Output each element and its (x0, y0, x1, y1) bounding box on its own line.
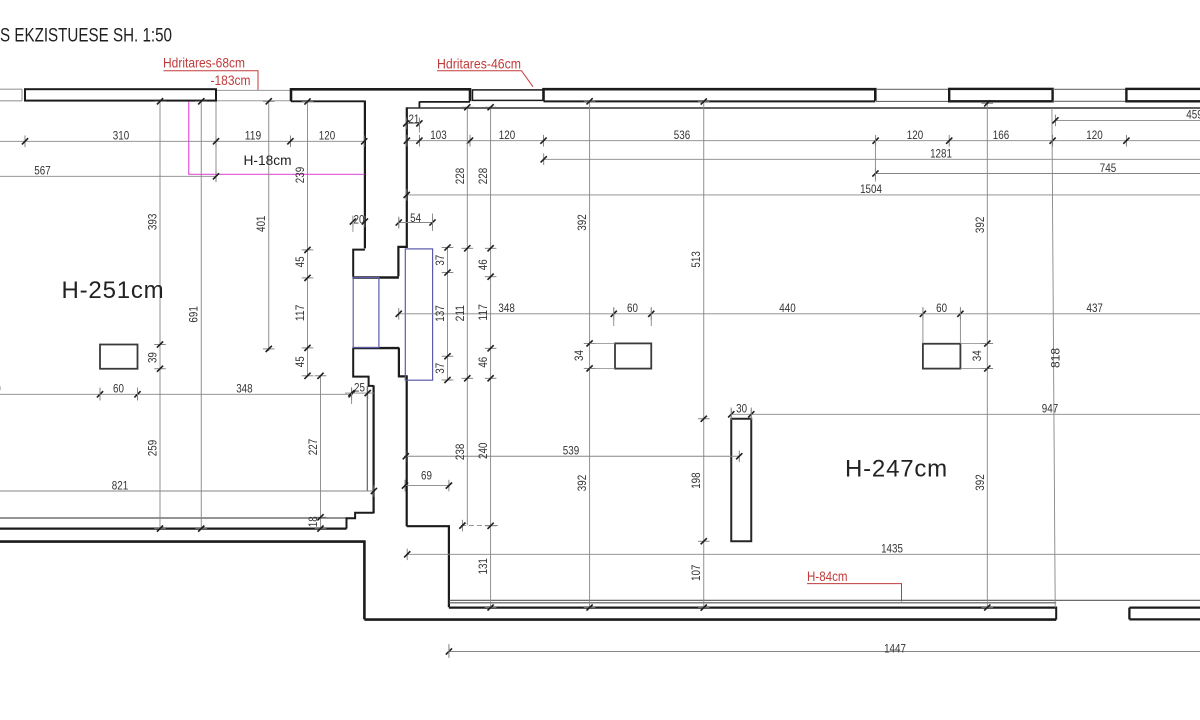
svg-text:393: 393 (146, 213, 160, 230)
red label H-84cm with leader (807, 568, 902, 602)
svg-text:536: 536 (674, 128, 691, 142)
svg-text:539: 539 (563, 444, 580, 458)
svg-text:392: 392 (575, 214, 589, 231)
svg-text:45: 45 (293, 356, 307, 367)
svg-text:25: 25 (354, 381, 365, 395)
svg-text:691: 691 (187, 306, 201, 323)
svg-text:Hdritares-46cm: Hdritares-46cm (437, 56, 521, 72)
vdim 228/46/117/46/240/131 x490.6 (476, 104, 496, 610)
svg-text:117: 117 (476, 304, 490, 321)
wall: thin door frame line x367.3 (366, 386, 368, 490)
dim 25 (door step width) (345, 381, 374, 405)
wall: pier box (1126-edge) (1126, 89, 1200, 101)
dim 348/60/440/60/437 y313.8 (396, 301, 1200, 320)
svg-text:120: 120 (319, 129, 336, 143)
extension below left column (99, 388, 101, 401)
svg-text:46: 46 (476, 356, 490, 367)
extension x875 between dim rows (874, 139, 876, 182)
svg-text:392: 392 (575, 475, 589, 492)
svg-text:60: 60 (627, 301, 638, 315)
svg-text:60: 60 (936, 301, 947, 315)
wall: inner face line y101 (291-365) (291, 100, 364, 102)
dim 1504 y194.9 (404, 182, 1200, 201)
svg-text:1281: 1281 (930, 147, 952, 161)
svg-text:18: 18 (306, 516, 320, 527)
wall: bottom step zigzag at x346-374 (347, 513, 374, 529)
wall: niche corner below corridor (407-449) (407, 526, 449, 607)
window opening top line (876-949) (876, 88, 949, 90)
svg-text:259: 259 (146, 440, 160, 457)
svg-text:348: 348 (498, 301, 515, 315)
svg-text:392: 392 (973, 474, 987, 491)
window opening bottom line (216-291) (217, 100, 291, 102)
window opening thin lines at canvas left edge (0, 88, 22, 90)
dim 1281 y159.3 (541, 147, 1200, 166)
dim 1447 y651.5 (446, 642, 1200, 658)
vdim 37/137/37 x447.5 (433, 244, 453, 383)
svg-text:401: 401 (254, 215, 268, 232)
dim 54 (door frame width) (396, 211, 436, 229)
svg-text:103: 103 (430, 128, 447, 142)
dim 21 (wall step at room top-left) (403, 112, 422, 129)
stub to column1 top (590, 342, 615, 344)
svg-text:238: 238 (453, 443, 467, 460)
svg-text:20: 20 (354, 213, 365, 227)
wall: pier bottom line (543-875) (544, 100, 876, 102)
tall pier/radiator rect (30x198) (731, 419, 751, 542)
vdim 392/34/392 x589.6 (572, 98, 595, 610)
svg-text:34: 34 (970, 350, 984, 361)
svg-text:240: 240 (476, 442, 490, 459)
extension above column2 left (922, 307, 924, 344)
wall: bottom sill thin line y602.8 (449, 602, 1056, 604)
dashed terminator of x467 dim chain (461, 525, 501, 527)
svg-text:239: 239 (293, 167, 307, 184)
svg-text:117: 117 (293, 304, 307, 321)
svg-text:54: 54 (410, 211, 421, 225)
svg-text:120: 120 (907, 128, 924, 142)
wall: door jamb step left (352.4-365 at y249) (353, 250, 365, 277)
vdim 227/18 x320.5 (306, 373, 326, 532)
dim 30 / 947 y414 (728, 402, 1200, 421)
extension above tall rect left (730, 408, 732, 419)
extension x216 wall edge down to dim 567 (215, 102, 217, 182)
svg-text:227: 227 (306, 439, 320, 456)
door leaf rect in corridor (blue) (353, 278, 379, 348)
column rect in left room (100, 345, 138, 369)
svg-text:818: 818 (1049, 348, 1063, 368)
column rect 1 in big room (615, 343, 651, 368)
wall: bottom sill thin line y600.3 (449, 599, 1200, 601)
svg-text:392: 392 (973, 216, 987, 233)
extension above column2 right (959, 307, 961, 344)
extension for dim 54 left (398, 218, 400, 229)
svg-text:211: 211 (453, 305, 467, 322)
svg-text:H-84cm: H-84cm (807, 568, 848, 584)
window opening bottom line (1053-1126) (1053, 100, 1127, 102)
vdim 392/34/392 x987.3 (970, 100, 993, 610)
dim line 310/119/120 y141 (0, 129, 367, 148)
wall: door sill bottom thick line y348 (352, 347, 399, 349)
wall: outer bottom wall y619.6 (364, 618, 1056, 621)
svg-text:513: 513 (689, 251, 703, 268)
svg-text:567: 567 (34, 164, 51, 178)
svg-text:1447: 1447 (884, 642, 906, 656)
extension below left column right (137, 388, 139, 401)
wall: big room top inner wall line y108 (407, 107, 1200, 109)
wall: right jamb upper step (397-407 at y248) (398, 107, 406, 276)
svg-text:228: 228 (476, 168, 490, 185)
extension above column1 right (650, 307, 652, 326)
svg-text:34: 34 (572, 350, 586, 361)
svg-text:459: 459 (1186, 108, 1200, 122)
svg-text:37: 37 (433, 363, 447, 374)
svg-text:1435: 1435 (881, 542, 903, 556)
svg-text:947: 947 (1042, 402, 1059, 416)
extension for dim 54 right (432, 214, 434, 232)
wall: left room lower right wall x373.6 (373, 385, 375, 513)
svg-text:745: 745 (1100, 161, 1117, 175)
svg-text:120: 120 (499, 128, 516, 142)
window: Hdritares-46cm window rect (472-543) (473, 90, 544, 101)
vdim 228/211/238 x467 (453, 104, 473, 525)
svg-text:437: 437 (1087, 301, 1104, 315)
dim 69 y485.6 (402, 468, 452, 491)
svg-text:S EKZISTUESE SH. 1:50: S EKZISTUESE SH. 1:50 (0, 26, 172, 47)
wall: right jamb lower step (399, 348, 407, 526)
wall: top band pier x543-876 (544, 89, 876, 101)
svg-text:310: 310 (113, 129, 130, 143)
stub to column1 bottom (590, 368, 615, 370)
svg-text:69: 69 (421, 468, 432, 482)
wall: left jamb lower (353 down to step at 376.5) (353, 348, 373, 386)
svg-text:120: 120 (1086, 128, 1103, 142)
svg-text:60: 60 (113, 382, 124, 396)
svg-text:45: 45 (293, 256, 307, 267)
vdim 691 x201 (187, 98, 207, 532)
svg-text:228: 228 (453, 168, 467, 185)
vdim 818 x1054 (slightly tilted) (1049, 108, 1063, 608)
wall: left room bottom thick line y528.6 (0, 527, 347, 529)
svg-text:H-247cm: H-247cm (845, 456, 948, 483)
dim 1435 y554 (404, 542, 1200, 561)
dim 567 y176 (0, 164, 219, 183)
extension above column1 left (613, 307, 615, 326)
extension at x449 for dim 1447 (448, 644, 450, 658)
red label Hdritares-46cm with leader (437, 56, 533, 87)
wall: bottom band right edge at door gap x1056.2 (1055, 607, 1057, 620)
svg-text:821: 821 (112, 478, 129, 492)
stub to column2 top (960, 343, 987, 345)
svg-text:46: 46 (476, 259, 490, 270)
wall: step vertical x419.4 (between y102 and y108 lines) (418, 102, 420, 109)
svg-text:166: 166 (993, 128, 1010, 142)
dim 821 y491 (0, 478, 377, 497)
window: left room top window (rect 25-216) (25, 89, 216, 100)
svg-text:-183cm: -183cm (211, 72, 251, 88)
wall: door sill top thick line y277.5 (352, 276, 399, 278)
door leaf rect into big room (blue) (405, 249, 432, 380)
svg-text:119: 119 (245, 129, 262, 143)
svg-text:21: 21 (408, 112, 419, 126)
svg-text:H-251cm: H-251cm (62, 277, 165, 304)
dim 20 (wall thickness at door jamb) (350, 213, 368, 233)
vdim 239/45/117/45 x307.5 (293, 98, 313, 379)
extension above tall rect right (750, 408, 752, 419)
svg-text:Hdritares-68cm: Hdritares-68cm (163, 55, 245, 71)
svg-text:37: 37 (433, 254, 447, 265)
stub to column2 bottom (960, 367, 987, 369)
dim 60/348 y394 left room (0, 382, 355, 401)
wall: left room bottom inner thin line y518 (0, 517, 347, 519)
wall: right room bottom inner thick line y607.6 (449, 606, 1056, 608)
svg-text:440: 440 (779, 301, 796, 315)
svg-text:131: 131 (476, 558, 490, 575)
svg-text:H-18cm: H-18cm (244, 152, 292, 168)
wall: left room right wall upper segment x365 (364, 101, 366, 249)
dim 459 y120 (cropped) (1052, 108, 1200, 127)
wall: outer bottom wall of left room y541.6 and step down to y619.6 (0, 542, 364, 620)
column rect 2 in big room (923, 344, 961, 369)
svg-text:198: 198 (689, 472, 703, 489)
wall: pier box (949-1053) (949, 89, 1052, 101)
wall: inner face line y102 (419-470) (419, 101, 470, 103)
window opening top line (1053-1126) (1053, 88, 1127, 90)
svg-text:137: 137 (433, 305, 447, 322)
wall: top band pier from x291 to x470 (thick top line) (291, 89, 470, 101)
wall: bottom-right pier box (1130-edge) (1129, 608, 1200, 620)
svg-text:348: 348 (236, 382, 253, 396)
svg-text:39: 39 (146, 352, 160, 363)
svg-text:1504: 1504 (860, 182, 882, 196)
vdim 513/198/107 x703.75 (689, 98, 709, 610)
window opening bottom line (876-949) (876, 100, 949, 102)
vdim 393/39/259 x160 (146, 98, 166, 532)
extension line for dim 21 (418, 119, 420, 133)
dim 103/120/536/120/166/120 y140.7 (404, 128, 1200, 147)
dim 539 y456 (403, 444, 743, 463)
svg-text:30: 30 (736, 402, 747, 416)
dim 745 y173.5 (872, 161, 1200, 180)
window opening top line (216-291) (217, 89, 291, 91)
magenta reference polyline (H-18cm ceiling edge) (189, 102, 365, 175)
red label Hdritares-68cm with leader (163, 55, 258, 91)
svg-text:107: 107 (689, 564, 703, 581)
vdim 401 x269 (254, 98, 274, 352)
